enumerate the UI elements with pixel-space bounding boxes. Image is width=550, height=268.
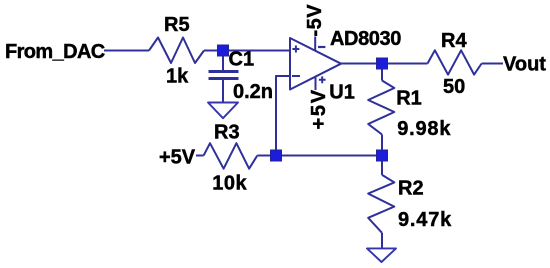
op-amp negative supply pin (314, 37, 316, 51)
svg-text:R1: R1 (396, 88, 422, 110)
svg-text:C1: C1 (229, 48, 255, 70)
wire From_DAC to R5 (104, 50, 149, 52)
svg-text:1k: 1k (166, 66, 189, 88)
svg-text:Vout: Vout (503, 54, 546, 76)
wire R3 node up to op-amp - input (276, 76, 290, 151)
wire R2 to ground (381, 233, 383, 248)
op-amp - input mark (292, 75, 300, 77)
wire output node down to R1 (381, 64, 383, 81)
ground under C1 (208, 103, 238, 119)
node junction at R3 output (271, 150, 282, 161)
svg-text:9.98k: 9.98k (397, 118, 451, 140)
svg-text:R5: R5 (164, 14, 190, 36)
svg-text:-5V: -5V (304, 4, 326, 37)
svg-text:R3: R3 (214, 122, 240, 144)
capacitor C1 (209, 51, 239, 103)
wire R1 to feedback node (381, 135, 383, 152)
wire feedback node down to R2 (381, 161, 383, 175)
svg-text:9.47k: 9.47k (398, 209, 452, 231)
node junction at op-amp output (377, 58, 388, 69)
svg-text:U1: U1 (329, 82, 355, 104)
pin plus mark (319, 76, 326, 83)
resistor R4 (428, 50, 482, 74)
op-amp + input mark (292, 46, 299, 53)
node junction at R1-R2 divider (377, 150, 388, 161)
wire R4 to Vout (482, 63, 503, 65)
resistor R5 (149, 38, 204, 64)
svg-text:10k: 10k (212, 173, 247, 195)
pin minus mark (318, 46, 325, 48)
resistor R1 (368, 81, 394, 135)
svg-text:AD8030: AD8030 (330, 28, 401, 50)
wire R3 node to feedback node (257, 155, 382, 157)
svg-text:From_DAC: From_DAC (5, 41, 105, 63)
wire op-amp output to R4 (341, 63, 428, 65)
node junction at C1 (218, 45, 229, 56)
svg-text:+5V: +5V (159, 147, 196, 169)
svg-text:R2: R2 (398, 178, 424, 200)
ground under R2 (367, 248, 396, 262)
svg-text:+5V: +5V (308, 88, 330, 129)
resistor R2 (368, 175, 394, 233)
wire +5V to R3 (196, 155, 204, 157)
svg-text:R4: R4 (441, 30, 467, 52)
op-amp U1 triangle (290, 38, 341, 90)
resistor R3 (204, 143, 258, 169)
wire R5 to op-amp + input (204, 50, 290, 52)
op-amp positive supply pin (315, 77, 317, 90)
svg-text:0.2n: 0.2n (233, 81, 273, 103)
svg-text:50: 50 (443, 76, 465, 98)
